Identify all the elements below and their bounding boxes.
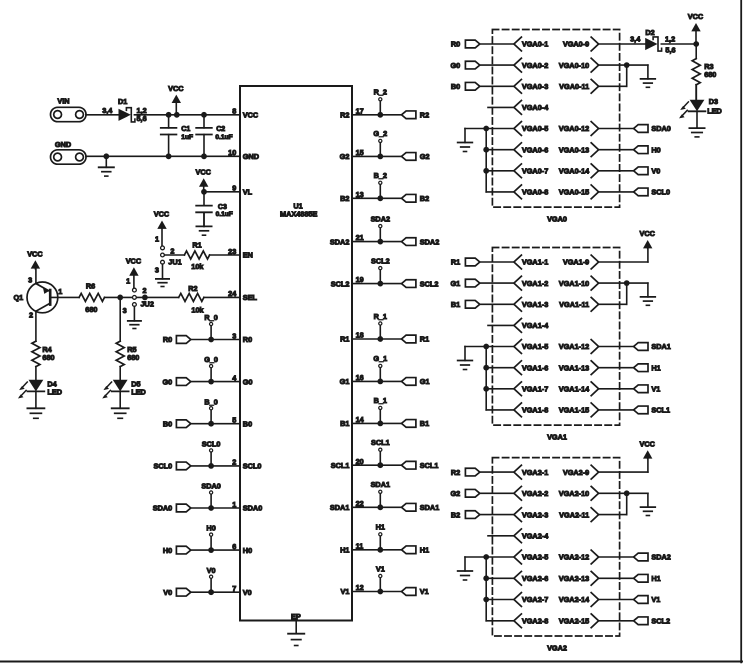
wire Q1 base to R6 xyxy=(50,296,79,298)
node VGA0-13 xyxy=(559,143,599,157)
svg-text:VGA2-1: VGA2-1 xyxy=(522,468,548,477)
junction GND rail at ground stem xyxy=(103,153,109,159)
test point V1 xyxy=(376,564,385,591)
LED D5 xyxy=(102,379,146,398)
connector V1 output xyxy=(402,587,429,596)
node VGA1-2 xyxy=(514,276,548,290)
ground at VGA0 bus xyxy=(458,129,473,152)
node VGA0-10 xyxy=(559,58,599,72)
wire VGA0-11 up to ground node xyxy=(599,65,627,86)
wire VGA2 to SCL2 connector xyxy=(599,620,634,622)
node VGA1-11 xyxy=(559,297,598,311)
svg-text:B2: B2 xyxy=(420,194,429,203)
svg-text:3: 3 xyxy=(155,265,159,274)
connector SCL0 output from VGA0 xyxy=(634,188,670,197)
U1 left pin 1 SDA0 label xyxy=(232,500,262,513)
test point SDA2 xyxy=(371,214,390,241)
svg-text:V0: V0 xyxy=(207,566,216,575)
node VGA2-6 xyxy=(514,571,548,585)
U1 left pin 8 VCC label xyxy=(232,107,259,120)
node VGA2-8 xyxy=(514,614,548,628)
ground below EP pad of U1 xyxy=(288,621,304,646)
connector H1 output from VGA2 xyxy=(634,574,661,583)
wire R0 connector to U1 pin 3 xyxy=(191,339,240,341)
junction VGA2-7 bus xyxy=(483,597,489,603)
wire Q1 collector to R4 xyxy=(35,311,37,341)
svg-text:VCC: VCC xyxy=(639,439,655,448)
connector V1 output from VGA1 xyxy=(634,385,661,394)
junction VCC/R3 node xyxy=(693,41,699,47)
wire V0 connector to U1 pin 7 xyxy=(191,591,240,593)
svg-text:SDA0: SDA0 xyxy=(243,504,262,513)
junction test point G_1 xyxy=(377,379,383,385)
node VGA1-10 xyxy=(559,276,599,290)
connector SDA0 output from VGA0 xyxy=(634,124,671,133)
svg-text:V1: V1 xyxy=(340,587,349,596)
svg-text:SDA1: SDA1 xyxy=(330,503,349,512)
node VGA0-6 xyxy=(514,143,548,157)
svg-text:H0: H0 xyxy=(243,546,252,555)
test point G_0 xyxy=(204,355,218,381)
svg-text:V1: V1 xyxy=(420,587,429,596)
wire R2 to U1 pin 24 SEL xyxy=(204,296,240,298)
wire VGA0 to V0 connector xyxy=(599,170,634,172)
wire JU1 pin 2 to R1 xyxy=(164,254,184,256)
wire VGA0 to SCL0 connector xyxy=(599,191,634,193)
power symbol VCC above JU2 xyxy=(126,257,142,289)
ground below D3 xyxy=(689,128,704,137)
wire VGA0-9 to D2 anode xyxy=(599,43,646,45)
junction VCC rail / C1 xyxy=(166,112,172,118)
junction test point B_1 xyxy=(377,421,383,427)
svg-text:EN: EN xyxy=(243,251,253,260)
svg-text:VGA0-2: VGA0-2 xyxy=(522,61,548,70)
svg-text:680: 680 xyxy=(42,353,54,362)
junction test point SCL1 xyxy=(377,462,383,468)
svg-text:G1: G1 xyxy=(340,377,350,386)
svg-text:VGA2-3: VGA2-3 xyxy=(522,510,548,519)
svg-text:3: 3 xyxy=(28,276,32,285)
connector V0 input xyxy=(163,588,191,597)
svg-text:VCC: VCC xyxy=(168,84,184,93)
svg-text:G2: G2 xyxy=(450,489,460,498)
wire U1 pin 22 to SDA1 connector xyxy=(352,506,402,508)
ground below C3 xyxy=(196,212,211,235)
svg-text:R6: R6 xyxy=(86,282,95,291)
svg-text:H1: H1 xyxy=(651,574,660,583)
node VGA2-7 xyxy=(514,593,548,607)
svg-text:R1: R1 xyxy=(192,241,201,250)
resistor R3 680 xyxy=(692,44,716,85)
connector B1 output xyxy=(402,419,430,428)
svg-text:G0: G0 xyxy=(162,377,172,386)
svg-text:SCL2: SCL2 xyxy=(420,279,439,288)
wire VGA2 to H1 connector xyxy=(599,577,634,579)
svg-text:EP: EP xyxy=(291,612,301,621)
svg-text:VGA1-12: VGA1-12 xyxy=(559,342,589,351)
svg-text:VGA1-14: VGA1-14 xyxy=(559,385,590,394)
test point R_2 xyxy=(374,88,387,115)
svg-text:SCL0: SCL0 xyxy=(243,462,262,471)
svg-text:VGA1-1: VGA1-1 xyxy=(522,258,548,267)
junction test point SDA1 xyxy=(377,504,383,510)
svg-text:V1: V1 xyxy=(651,595,660,604)
wire VIN to D1 anode xyxy=(86,114,119,116)
svg-text:GND: GND xyxy=(55,140,71,149)
junction VGA2-5 bus xyxy=(483,554,489,560)
test point H1 xyxy=(376,523,385,550)
wire VGA1 to SCL1 connector xyxy=(599,409,634,411)
wire D1 cathode to U1 pin 8 VCC xyxy=(134,114,240,116)
node VGA0-8 xyxy=(514,185,548,199)
connector H0 output from VGA0 xyxy=(634,145,661,154)
node VGA1-4 xyxy=(514,319,549,333)
svg-text:VGA0-9: VGA0-9 xyxy=(563,40,589,49)
svg-text:G2: G2 xyxy=(340,152,350,161)
LED D4 xyxy=(18,379,62,398)
svg-text:VGA2-15: VGA2-15 xyxy=(559,617,589,626)
junction VGA1-5 bus xyxy=(483,344,489,350)
junction VGA1-6 bus xyxy=(483,365,489,371)
U1 right pin 13 B2 label xyxy=(340,190,364,203)
svg-text:R_0: R_0 xyxy=(204,313,217,322)
svg-text:2: 2 xyxy=(142,286,146,295)
U1 left pin 7 V0 label xyxy=(232,584,252,597)
power symbol VCC above VGA1 xyxy=(639,229,655,248)
svg-text:R1: R1 xyxy=(420,335,429,344)
svg-text:VGA1-5: VGA1-5 xyxy=(522,342,548,351)
jumper JU2 xyxy=(123,277,154,315)
test point G_1 xyxy=(373,354,387,381)
connector H1 output from VGA1 xyxy=(634,363,661,372)
VGA0 dashed block outline xyxy=(492,30,619,208)
junction test point G_0 xyxy=(208,379,214,385)
svg-text:B2: B2 xyxy=(340,194,349,203)
svg-text:V1: V1 xyxy=(376,564,385,573)
connector G2 input to VGA2-2 xyxy=(450,489,479,498)
resistor R1 10k xyxy=(184,241,209,271)
junction VGA0-7 bus xyxy=(483,168,489,174)
junction VCC rail / C2 xyxy=(201,112,207,118)
wire D2 cathode to VCC node xyxy=(661,43,696,45)
junction test point SDA2 xyxy=(377,239,383,245)
svg-text:VGA1-8: VGA1-8 xyxy=(522,406,548,415)
wire U1 pin 12 to V1 connector xyxy=(352,591,402,593)
wire D5 to ground xyxy=(119,391,121,408)
power symbol VCC top right xyxy=(688,12,704,44)
svg-text:VGA2-5: VGA2-5 xyxy=(522,553,548,562)
svg-text:G0: G0 xyxy=(243,377,253,386)
svg-text:SCL2: SCL2 xyxy=(331,279,350,288)
wire GND connector to U1 pin 10 GND xyxy=(86,155,240,157)
svg-text:VGA2-4: VGA2-4 xyxy=(522,532,549,541)
junction test point R_0 xyxy=(208,337,214,343)
svg-text:H1: H1 xyxy=(420,546,429,555)
svg-text:G1: G1 xyxy=(450,279,460,288)
svg-text:VGA2-12: VGA2-12 xyxy=(559,553,589,562)
connector SDA2 output from VGA2 xyxy=(634,553,671,562)
ground at VGA0-10/11 xyxy=(641,65,656,87)
svg-text:D2: D2 xyxy=(645,28,654,37)
wire U1 pin 16 to G1 connector xyxy=(352,380,402,382)
U1 left pin 24 SEL label xyxy=(228,289,257,302)
U1 right pin 22 SDA1 label xyxy=(330,499,364,512)
svg-text:2: 2 xyxy=(29,311,33,320)
wire H0 connector to U1 pin 6 xyxy=(191,549,240,551)
svg-text:LED: LED xyxy=(707,106,722,115)
svg-text:SCL1: SCL1 xyxy=(651,406,670,415)
node VGA0-3 xyxy=(514,79,548,93)
U1 right pin 16 G1 label xyxy=(340,373,364,386)
junction test point H0 xyxy=(208,547,214,553)
svg-text:G2: G2 xyxy=(420,152,430,161)
svg-text:VL: VL xyxy=(243,188,253,197)
U1 right pin 19 SCL2 label xyxy=(331,275,364,288)
node VGA2-13 xyxy=(559,571,599,585)
ground below D5 xyxy=(112,408,129,418)
VGA1 dashed block outline xyxy=(492,248,619,426)
test point SCL2 xyxy=(371,256,390,283)
wire R3 to D3 xyxy=(695,85,697,100)
svg-text:R0: R0 xyxy=(451,40,460,49)
junction test point SCL0 xyxy=(208,463,214,469)
svg-text:B0: B0 xyxy=(243,419,252,428)
wire ground bus VGA0 pins 5-8 xyxy=(465,129,514,192)
svg-text:C1: C1 xyxy=(181,126,190,133)
connector B0 input xyxy=(163,419,191,428)
wire stub VGA0-4 xyxy=(488,106,514,108)
svg-text:VGA1-2: VGA1-2 xyxy=(522,279,548,288)
node VGA1-1 xyxy=(514,255,548,269)
page frame bottom border xyxy=(0,661,742,663)
ground below JU2 pin 3 xyxy=(128,306,141,328)
node VGA1-15 xyxy=(559,403,599,417)
svg-text:1: 1 xyxy=(126,277,130,286)
connector G0 input to VGA0-2 xyxy=(450,61,479,70)
connector SCL1 output xyxy=(402,461,439,470)
test point R_0 xyxy=(204,313,217,339)
svg-text:V0: V0 xyxy=(243,588,252,597)
connector SCL2 output xyxy=(402,279,439,288)
U1 right pin 18 R1 label xyxy=(340,331,364,344)
connector G1 output xyxy=(402,377,430,386)
svg-text:JU2: JU2 xyxy=(141,300,154,309)
svg-text:VCC: VCC xyxy=(126,257,142,266)
svg-text:SCL1: SCL1 xyxy=(331,461,350,470)
wire SDA0 connector to U1 pin 1 xyxy=(191,507,240,509)
svg-text:G0: G0 xyxy=(450,61,460,70)
connector B2 input to VGA2-3 xyxy=(451,510,480,519)
svg-text:H0: H0 xyxy=(163,546,172,555)
svg-text:H0: H0 xyxy=(206,524,215,533)
capacitor C1 xyxy=(161,115,193,157)
wire R2 to VGA2-1 xyxy=(480,471,514,473)
junction test point G_2 xyxy=(377,154,383,160)
connector SDA0 input xyxy=(153,504,191,513)
svg-text:VGA2-10: VGA2-10 xyxy=(559,489,589,498)
node VGA1-9 xyxy=(563,255,599,269)
junction test point V1 xyxy=(377,589,383,595)
svg-text:5,6: 5,6 xyxy=(665,45,675,54)
svg-text:0.1uF: 0.1uF xyxy=(216,211,233,218)
wire VGA2-11 up to ground node xyxy=(599,493,627,514)
ground at VGA2 bus xyxy=(458,557,473,580)
connector G0 input xyxy=(162,377,190,386)
wire VGA1-9 to VCC xyxy=(599,248,648,262)
wire D4 to ground xyxy=(35,391,37,408)
jumper JU1 xyxy=(155,235,182,275)
wire D3 to ground xyxy=(696,111,698,128)
svg-text:VGA0-5: VGA0-5 xyxy=(522,124,548,133)
node VGA2-9 xyxy=(563,465,599,479)
test point G_2 xyxy=(373,129,387,156)
node VGA2-10 xyxy=(559,486,599,500)
svg-text:VGA0-13: VGA0-13 xyxy=(559,145,589,154)
svg-text:V0: V0 xyxy=(651,167,660,176)
junction GND rail / C2 xyxy=(201,153,207,159)
svg-text:G1: G1 xyxy=(420,377,430,386)
svg-text:H0: H0 xyxy=(651,145,660,154)
junction node R6/R5 xyxy=(117,295,123,301)
U1 left pin 5 B0 label xyxy=(232,416,252,429)
svg-text:3,4: 3,4 xyxy=(630,35,641,44)
wire stub VGA2-4 xyxy=(488,535,514,537)
junction test point SCL2 xyxy=(377,281,383,287)
wire G0 connector to U1 pin 4 xyxy=(191,381,240,383)
svg-text:SDA1: SDA1 xyxy=(420,503,439,512)
wire VGA0 to SDA0 connector xyxy=(599,128,634,130)
ground below JU1 pin 3 xyxy=(156,264,169,286)
svg-text:R_1: R_1 xyxy=(374,312,387,321)
node VGA0-7 xyxy=(514,164,548,178)
svg-text:SDA2: SDA2 xyxy=(330,237,349,246)
svg-text:G_2: G_2 xyxy=(373,129,387,138)
svg-text:680: 680 xyxy=(704,70,716,79)
wire B1 to VGA1-3 xyxy=(480,303,514,305)
node VGA1-12 xyxy=(559,340,599,354)
ground at VGA1-10/11 xyxy=(641,283,656,305)
svg-text:VCC: VCC xyxy=(27,249,43,258)
transistor Q1 (PNP) xyxy=(13,276,62,320)
connector SDA1 output from VGA1 xyxy=(634,342,671,351)
node VGA0-4 xyxy=(514,101,549,115)
U1 right pin 21 SDA2 label xyxy=(330,233,364,246)
wire R1 to U1 pin 23 EN xyxy=(210,254,240,256)
resistor R2 10k xyxy=(179,284,205,315)
svg-text:D3: D3 xyxy=(709,97,718,106)
svg-text:R1: R1 xyxy=(451,258,460,267)
svg-text:V0: V0 xyxy=(163,588,172,597)
wire R0 to VGA0-1 xyxy=(480,43,514,45)
svg-text:SCL0: SCL0 xyxy=(154,462,173,471)
wire U1 pin 15 to G2 connector xyxy=(352,155,402,157)
wire VGA1-11 up to ground node xyxy=(599,283,627,304)
power symbol VCC above VGA2 xyxy=(639,439,655,458)
svg-text:VGA0: VGA0 xyxy=(547,215,567,224)
connector H0 input xyxy=(163,546,191,555)
svg-text:JU1: JU1 xyxy=(168,258,181,267)
connector R2 input to VGA2-1 xyxy=(451,468,480,477)
svg-text:VGA2-14: VGA2-14 xyxy=(559,595,590,604)
connector V0 output from VGA0 xyxy=(634,167,661,176)
node VGA0-9 xyxy=(563,37,599,51)
svg-text:VGA2-8: VGA2-8 xyxy=(522,617,548,626)
wire U1 pin 20 to SCL1 connector xyxy=(352,464,402,466)
U1 left pin 10 GND label xyxy=(228,148,259,161)
svg-text:VGA2-13: VGA2-13 xyxy=(559,574,589,583)
node VGA0-14 xyxy=(559,164,599,178)
svg-text:VGA1-13: VGA1-13 xyxy=(559,363,589,372)
U1 left pin 2 SCL0 label xyxy=(232,458,261,471)
svg-text:SCL0: SCL0 xyxy=(202,440,221,449)
U1 left pin 4 G0 label xyxy=(232,373,252,386)
svg-text:H1: H1 xyxy=(651,363,660,372)
svg-text:SCL0: SCL0 xyxy=(651,188,670,197)
connector VIN xyxy=(51,96,87,121)
svg-text:VGA1-15: VGA1-15 xyxy=(559,406,589,415)
wire VGA1 to H1 connector xyxy=(599,367,634,369)
junction GND rail / C1 xyxy=(166,153,172,159)
svg-text:SDA0: SDA0 xyxy=(651,124,670,133)
svg-text:B0: B0 xyxy=(163,419,172,428)
connector R0 input to VGA0-1 xyxy=(451,40,480,49)
U1 left pin 6 H0 label xyxy=(232,542,252,555)
svg-text:VGA1-9: VGA1-9 xyxy=(563,258,589,267)
svg-text:R2: R2 xyxy=(420,111,429,120)
svg-text:VGA0-3: VGA0-3 xyxy=(522,82,548,91)
svg-text:VGA1-11: VGA1-11 xyxy=(559,300,589,309)
junction VGA0-6 bus xyxy=(483,147,489,153)
svg-text:SCL1: SCL1 xyxy=(420,461,439,470)
junction VL node xyxy=(201,189,207,195)
svg-text:VGA1: VGA1 xyxy=(547,433,567,442)
svg-text:SDA2: SDA2 xyxy=(420,237,439,246)
svg-text:SEL: SEL xyxy=(243,293,258,302)
svg-text:VGA0-4: VGA0-4 xyxy=(522,103,549,112)
svg-text:VGA0-1: VGA0-1 xyxy=(522,40,548,49)
svg-text:VGA0-15: VGA0-15 xyxy=(559,188,589,197)
svg-text:G_0: G_0 xyxy=(204,355,218,364)
wire B0 connector to U1 pin 5 xyxy=(191,423,240,425)
junction VGA1-10/11 node xyxy=(624,280,630,286)
svg-text:VGA1-4: VGA1-4 xyxy=(522,321,549,330)
svg-text:B2: B2 xyxy=(451,510,460,519)
wire VGA2-9 to VCC xyxy=(599,458,648,472)
page frame right border xyxy=(740,0,742,662)
svg-text:LED: LED xyxy=(47,387,62,396)
node VGA2-14 xyxy=(559,593,599,607)
wire G1 to VGA1-2 xyxy=(480,282,514,284)
node VGA1-7 xyxy=(514,382,548,396)
svg-text:SDA2: SDA2 xyxy=(371,214,390,223)
diode D1 (Schottky) xyxy=(118,97,135,122)
svg-text:1,2: 1,2 xyxy=(665,35,675,44)
svg-text:VGA2-11: VGA2-11 xyxy=(559,510,589,519)
connector R1 input to VGA1-1 xyxy=(451,258,480,267)
svg-text:680: 680 xyxy=(127,353,139,362)
node VGA0-1 xyxy=(514,37,548,51)
connector SDA1 output xyxy=(402,503,440,512)
node VGA1-6 xyxy=(514,361,548,375)
node VGA2-4 xyxy=(514,529,549,543)
svg-text:B_1: B_1 xyxy=(374,396,387,405)
svg-text:VGA0-8: VGA0-8 xyxy=(522,188,548,197)
svg-text:B_0: B_0 xyxy=(204,397,217,406)
svg-text:VCC: VCC xyxy=(195,168,211,177)
node VGA1-8 xyxy=(514,403,548,417)
U1 right pin 11 H1 label xyxy=(340,541,363,554)
test point B_1 xyxy=(374,396,387,423)
